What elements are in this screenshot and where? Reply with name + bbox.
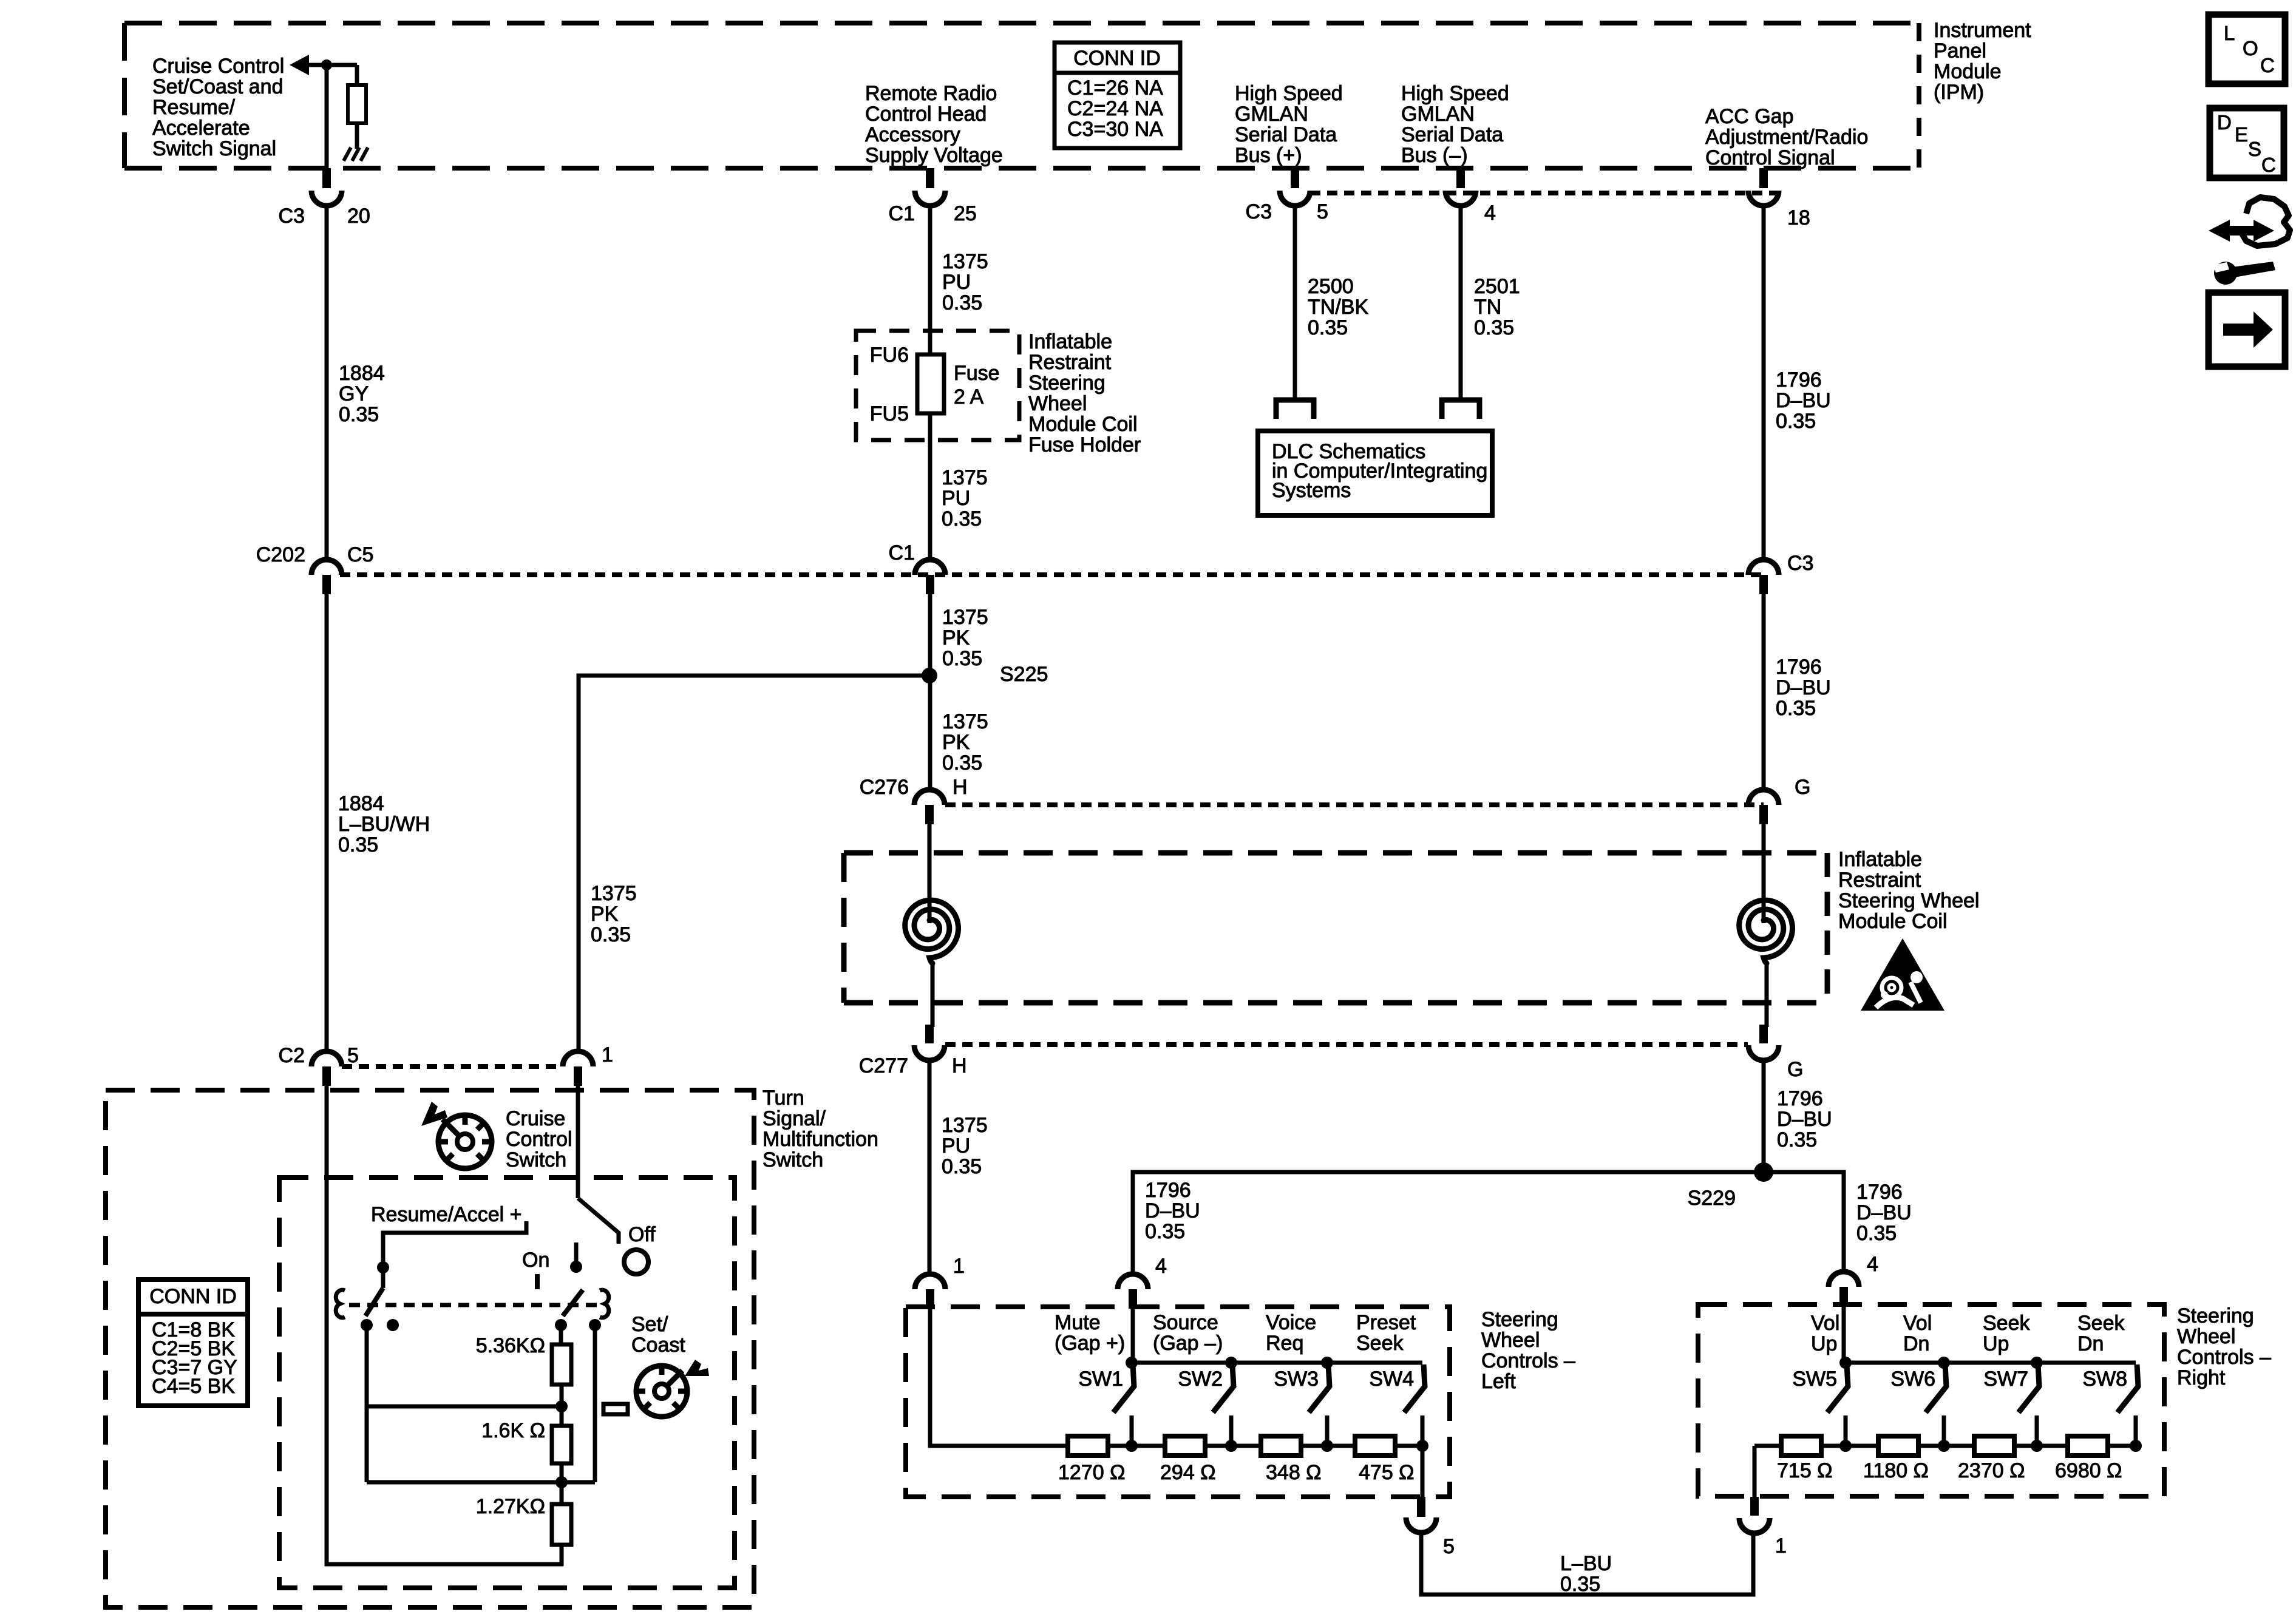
switch SW6 lower contact — [1942, 1415, 1946, 1446]
svg-text:Resume/Accel +: Resume/Accel + — [371, 1203, 522, 1226]
svg-text:1375: 1375 — [942, 466, 988, 489]
svg-text:GMLAN: GMLAN — [1401, 103, 1475, 126]
svg-text:CONN ID: CONN ID — [1073, 47, 1161, 70]
switch SW1 blade — [1113, 1364, 1134, 1412]
svg-text:0.35: 0.35 — [1856, 1222, 1897, 1245]
svg-text:1180 Ω: 1180 Ω — [1863, 1459, 1929, 1482]
svg-text:O: O — [2243, 37, 2258, 59]
svg-text:Restraint: Restraint — [1028, 351, 1112, 374]
link wire 2 — [367, 1480, 595, 1485]
svg-text:Inflatable: Inflatable — [1028, 330, 1112, 353]
svg-text:C276: C276 — [860, 776, 909, 799]
off blade — [578, 1198, 619, 1244]
svg-text:SW2: SW2 — [1178, 1368, 1223, 1391]
wire 1375 PU to SWC left — [928, 1059, 932, 1274]
svg-text:1884: 1884 — [339, 362, 385, 385]
connector C202 pin C1 — [915, 560, 945, 575]
off-page terminal (DLC +) — [1276, 400, 1314, 419]
svg-text:0.35: 0.35 — [1308, 316, 1348, 339]
svg-text:0.35: 0.35 — [1776, 697, 1816, 720]
wire pin1 to resistor row — [930, 1307, 1068, 1446]
svg-text:18: 18 — [1787, 206, 1810, 229]
svg-text:G: G — [1795, 776, 1810, 799]
junction dot SW6 rail — [1938, 1357, 1950, 1369]
connector row dotted line C277 — [945, 1042, 1748, 1047]
svg-text:SW4: SW4 — [1369, 1368, 1414, 1391]
svg-text:Vol: Vol — [1811, 1312, 1839, 1335]
svg-text:Steering: Steering — [1481, 1308, 1558, 1331]
svg-text:Controls –: Controls – — [2177, 1346, 2271, 1369]
svg-text:H: H — [952, 1054, 967, 1077]
svg-text:1796: 1796 — [1777, 1087, 1823, 1110]
svg-text:1.6K Ω: 1.6K Ω — [481, 1419, 545, 1442]
connector row dotted line C276 — [945, 802, 1764, 807]
svg-text:S229: S229 — [1688, 1187, 1736, 1210]
svg-text:C: C — [2260, 54, 2275, 76]
svg-text:GY: GY — [339, 382, 369, 405]
svg-text:Restraint: Restraint — [1838, 869, 1921, 892]
junction dot SW5 row — [1839, 1440, 1852, 1452]
resistor 475 Ω — [1355, 1436, 1395, 1456]
svg-text:1270 Ω: 1270 Ω — [1058, 1461, 1126, 1484]
svg-text:Instrument: Instrument — [1934, 19, 2031, 42]
svg-text:0.35: 0.35 — [1777, 1128, 1817, 1151]
connector pin 1 (SWC right) — [1750, 1497, 1759, 1516]
node dot — [555, 1476, 568, 1488]
Turn Signal/Multifunction Switch box — [106, 1090, 754, 1607]
wire — [560, 1463, 564, 1504]
junction dot SW3 rail — [1321, 1357, 1333, 1369]
connector C1 pin 25 (IPM) — [926, 168, 934, 188]
svg-text:L: L — [2224, 22, 2235, 44]
splice S225 — [922, 668, 937, 683]
svg-text:D–BU: D–BU — [1777, 1108, 1832, 1131]
wire C2-1 down to off switch — [576, 1085, 580, 1198]
svg-text:SW1: SW1 — [1078, 1368, 1123, 1391]
svg-text:FU5: FU5 — [870, 402, 909, 425]
svg-text:6980 Ω: 6980 Ω — [2055, 1459, 2122, 1482]
svg-text:L–BU/WH: L–BU/WH — [338, 813, 430, 836]
Cruise Control Switch box — [279, 1178, 735, 1588]
svg-text:5.36KΩ: 5.36KΩ — [476, 1334, 545, 1357]
svg-text:1375: 1375 — [942, 606, 988, 629]
svg-text:Source: Source — [1153, 1311, 1218, 1334]
svg-text:2500: 2500 — [1308, 275, 1354, 298]
svg-text:High Speed: High Speed — [1235, 82, 1343, 105]
switch SW8 lower contact — [2134, 1415, 2138, 1446]
svg-text:1.27KΩ: 1.27KΩ — [476, 1495, 545, 1518]
svg-text:C1=26 NA: C1=26 NA — [1067, 76, 1163, 100]
connector row dotted line C202 — [340, 572, 1764, 577]
switch SW8 blade — [2118, 1364, 2138, 1412]
svg-text:TN: TN — [1474, 296, 1501, 319]
switch SW5 lower contact — [1844, 1415, 1848, 1446]
switch SW1 lower contact — [1130, 1415, 1134, 1446]
svg-text:1: 1 — [602, 1043, 613, 1066]
svg-text:Accessory: Accessory — [865, 123, 960, 146]
svg-text:348 Ω: 348 Ω — [1266, 1461, 1322, 1484]
connector pin 4 (SWC right) — [1829, 1272, 1859, 1287]
connector C3 pin 20 (IPM) — [322, 168, 331, 188]
set/coast arrow — [685, 1360, 709, 1376]
switch rail (left module) — [1132, 1361, 1422, 1365]
svg-text:PU: PU — [942, 1134, 970, 1158]
svg-text:Bus (–): Bus (–) — [1401, 144, 1468, 167]
on contact — [574, 1242, 579, 1267]
svg-text:Switch: Switch — [506, 1148, 566, 1171]
connector pin 18 (IPM) — [1759, 168, 1768, 188]
svg-text:5: 5 — [347, 1044, 359, 1067]
switch SW2 blade — [1213, 1364, 1234, 1412]
wire — [355, 65, 359, 85]
svg-text:C5: C5 — [347, 543, 373, 566]
svg-text:Wheel: Wheel — [2177, 1325, 2235, 1348]
svg-text:GMLAN: GMLAN — [1235, 103, 1308, 126]
svg-text:Serial Data: Serial Data — [1235, 123, 1337, 146]
off-page terminal (DLC -) — [1442, 400, 1479, 419]
svg-text:20: 20 — [347, 205, 370, 228]
svg-text:4: 4 — [1155, 1255, 1167, 1278]
svg-text:SW7: SW7 — [1983, 1368, 2028, 1391]
off circle — [624, 1250, 648, 1274]
svg-text:5: 5 — [1317, 200, 1328, 223]
ground (chassis) — [344, 147, 351, 161]
svg-text:Right: Right — [2177, 1366, 2226, 1389]
svg-text:SW6: SW6 — [1890, 1368, 1935, 1391]
svg-text:Dn: Dn — [2077, 1332, 2104, 1355]
resume pivot dot — [377, 1261, 389, 1273]
DLC Schematics reference box — [1258, 431, 1492, 515]
svg-text:Module Coil: Module Coil — [1028, 413, 1138, 436]
wire 1884 L-BU/WH — [325, 593, 329, 1053]
wire L-BU — [1421, 1531, 1753, 1595]
switch SW2 lower contact — [1229, 1415, 1234, 1446]
svg-text:C4=5 BK: C4=5 BK — [152, 1375, 235, 1398]
svg-text:C2: C2 — [279, 1044, 305, 1067]
svg-text:C3: C3 — [1246, 200, 1272, 223]
svg-text:1375: 1375 — [942, 1114, 988, 1137]
junction dot SW1 rail — [1126, 1357, 1138, 1369]
svg-text:Vol: Vol — [1903, 1312, 1932, 1335]
junction dot SW2 row — [1225, 1440, 1237, 1452]
svg-text:25: 25 — [954, 202, 977, 225]
stalk arrow icon — [421, 1102, 447, 1126]
junction dot SW2 rail — [1225, 1357, 1237, 1369]
svg-text:Serial Data: Serial Data — [1401, 123, 1503, 146]
svg-text:Fuse Holder: Fuse Holder — [1028, 433, 1141, 456]
resistor 5.36K — [552, 1344, 571, 1385]
resistor 1270 Ω — [1068, 1436, 1108, 1456]
svg-text:H: H — [953, 776, 968, 799]
link end symbol left — [336, 1290, 345, 1318]
switch SW4 lower contact — [1421, 1415, 1425, 1446]
svg-text:TN/BK: TN/BK — [1308, 296, 1368, 319]
svg-text:C3: C3 — [279, 205, 305, 228]
switch SW6 blade — [1926, 1364, 1946, 1412]
svg-text:PU: PU — [942, 271, 971, 294]
wire — [307, 63, 357, 67]
svg-text:Systems: Systems — [1272, 479, 1351, 502]
svg-text:Inflatable: Inflatable — [1838, 848, 1922, 871]
connector C276 pin G — [1748, 790, 1779, 805]
resistor row wires (left) — [930, 1444, 1422, 1448]
node dot — [555, 1400, 568, 1412]
svg-text:Wheel: Wheel — [1028, 392, 1087, 415]
wire out of left coil — [931, 963, 935, 1027]
svg-text:PK: PK — [942, 626, 970, 649]
svg-text:D–BU: D–BU — [1776, 676, 1831, 699]
svg-text:Left: Left — [1481, 1370, 1516, 1393]
svg-text:C: C — [2261, 154, 2276, 176]
switch SW7 lower contact — [2035, 1415, 2039, 1446]
svg-text:1375: 1375 — [942, 710, 988, 733]
svg-text:Panel: Panel — [1934, 39, 1986, 63]
wire 1796 D-BU to S229 — [1762, 1059, 1766, 1172]
connector row dotted line C2 (turn signal switch) — [342, 1064, 563, 1069]
DESC icon box — [2210, 108, 2284, 178]
wire 1796 D-BU (below C202) — [1762, 593, 1766, 791]
svg-text:Bus (+): Bus (+) — [1235, 144, 1302, 167]
fuse FU6/FU5 2A — [917, 354, 944, 413]
resume/accel wire — [383, 1221, 526, 1288]
svg-text:Off: Off — [628, 1223, 656, 1246]
svg-text:2 A: 2 A — [954, 385, 983, 408]
resistor 715 Ω — [1781, 1436, 1821, 1456]
CONN ID table (switch) — [138, 1280, 248, 1406]
junction dot — [321, 59, 332, 70]
junction dot SW3 row — [1321, 1440, 1333, 1452]
wrench icon — [2214, 262, 2237, 285]
Steering Wheel Controls - Left box — [906, 1307, 1450, 1497]
svg-text:Module: Module — [1934, 60, 2002, 83]
svg-text:0.35: 0.35 — [338, 833, 378, 856]
svg-text:Supply Voltage: Supply Voltage — [865, 144, 1003, 167]
mechanical link dashed line — [349, 1303, 598, 1307]
wire 2500 TN/BK — [1293, 205, 1297, 399]
svg-text:C277: C277 — [859, 1054, 908, 1077]
junction dot SW6 row — [1938, 1440, 1950, 1452]
svg-text:0.35: 0.35 — [942, 291, 982, 314]
wire 1796 D-BU (from pin 18) — [1762, 205, 1766, 561]
resistor row wires (right) — [1754, 1444, 2136, 1448]
connector C2 pin 1 (turn signal switch) — [563, 1051, 593, 1066]
wire C2-5 down through switch — [327, 1085, 563, 1564]
resistor 294 Ω — [1165, 1436, 1205, 1456]
svg-text:1375: 1375 — [591, 882, 637, 905]
wire row to pin 1 (right) — [1753, 1446, 1757, 1497]
svg-text:Turn: Turn — [763, 1086, 804, 1110]
junction dot SW7 rail — [2031, 1357, 2043, 1369]
svg-text:C3: C3 — [1787, 552, 1813, 575]
svg-text:Voice: Voice — [1266, 1311, 1316, 1334]
connector row dotted line (GMLAN) — [1310, 191, 1778, 195]
resistor 2370 Ω — [1974, 1436, 2014, 1456]
svg-text:2501: 2501 — [1474, 275, 1520, 298]
cruise control switch icon (gauge) — [438, 1115, 492, 1168]
svg-text:Mute: Mute — [1055, 1311, 1101, 1334]
svg-text:C1: C1 — [889, 541, 915, 564]
svg-text:5: 5 — [1443, 1535, 1455, 1558]
svg-text:Up: Up — [1811, 1332, 1837, 1355]
svg-text:Up: Up — [1983, 1332, 2009, 1355]
wire pin4 to rail — [1131, 1307, 1135, 1363]
wire — [560, 1545, 564, 1566]
wire S229 to left (SWC-L pin 4) — [1133, 1172, 1764, 1274]
svg-text:D: D — [2217, 111, 2232, 134]
svg-text:Set/Coast and: Set/Coast and — [152, 75, 283, 98]
svg-text:0.35: 0.35 — [339, 403, 379, 426]
wire into left coil — [928, 823, 932, 923]
wire 1375 PK — [928, 593, 932, 791]
connector C277 pin H — [925, 1025, 934, 1043]
connector pin 5 (SWC left) — [1417, 1497, 1425, 1517]
svg-text:Fuse: Fuse — [954, 362, 1000, 385]
switch rail (right module) — [1846, 1361, 2136, 1365]
svg-text:Control Head: Control Head — [865, 103, 987, 126]
connector C202 pin C5 — [311, 560, 342, 575]
Steering Wheel Controls - Right box — [1698, 1304, 2164, 1496]
svg-text:D–BU: D–BU — [1856, 1201, 1912, 1224]
connector pin 1 (SWC left) — [915, 1274, 945, 1289]
svg-text:0.35: 0.35 — [942, 751, 982, 775]
SIR warning triangle — [1861, 938, 1944, 1011]
resume blade — [365, 1288, 383, 1316]
svg-text:715 Ω: 715 Ω — [1777, 1459, 1833, 1482]
switch SW5 blade — [1827, 1364, 1848, 1412]
svg-text:ACC Gap: ACC Gap — [1705, 105, 1794, 128]
svg-text:1796: 1796 — [1145, 1179, 1191, 1202]
svg-text:SW5: SW5 — [1792, 1368, 1837, 1391]
svg-text:Preset: Preset — [1356, 1311, 1416, 1334]
svg-text:E: E — [2235, 123, 2248, 146]
svg-text:Steering: Steering — [1028, 371, 1106, 395]
svg-text:Steering Wheel: Steering Wheel — [1838, 889, 1979, 912]
svg-text:Controls –: Controls – — [1481, 1349, 1575, 1372]
link end symbol right — [600, 1290, 609, 1318]
svg-text:SW8: SW8 — [2082, 1368, 2127, 1391]
svg-text:L–BU: L–BU — [1560, 1552, 1612, 1575]
wire out of right coil — [1765, 963, 1769, 1027]
svg-text:Resume/: Resume/ — [152, 96, 236, 119]
svg-text:Multifunction: Multifunction — [763, 1128, 878, 1151]
svg-text:Control Signal: Control Signal — [1705, 146, 1835, 169]
wire 2501 TN — [1459, 205, 1463, 399]
svg-text:475 Ω: 475 Ω — [1359, 1461, 1415, 1484]
svg-text:High Speed: High Speed — [1401, 82, 1509, 105]
svg-text:(Gap –): (Gap –) — [1153, 1332, 1223, 1355]
resistor 1.6K — [552, 1426, 571, 1463]
svg-text:(Gap +): (Gap +) — [1055, 1332, 1125, 1355]
hand with double arrow icon — [2209, 220, 2274, 242]
svg-text:0.35: 0.35 — [942, 647, 982, 670]
junction dot SW4 row — [1416, 1440, 1428, 1452]
junction dot SW5 rail — [1839, 1357, 1852, 1369]
left contact wire — [365, 1325, 369, 1482]
svg-text:1796: 1796 — [1776, 656, 1822, 679]
svg-text:C3=30 NA: C3=30 NA — [1067, 118, 1163, 141]
svg-text:D–BU: D–BU — [1145, 1199, 1200, 1222]
svg-text:CONN ID: CONN ID — [149, 1285, 237, 1308]
svg-text:Accelerate: Accelerate — [152, 117, 250, 140]
junction dot SW1 row — [1126, 1440, 1138, 1452]
coil (right, SIR steering wheel module coil) — [1739, 900, 1793, 963]
svg-text:294 Ω: 294 Ω — [1160, 1461, 1216, 1484]
svg-text:0.35: 0.35 — [591, 923, 631, 946]
svg-text:0.35: 0.35 — [1560, 1573, 1600, 1596]
svg-text:Seek: Seek — [2077, 1312, 2125, 1335]
wire into right coil — [1762, 823, 1766, 923]
fuse holder dashed box FU6/FU5 — [856, 331, 1019, 440]
resistor (IPM internal pull-up) — [348, 85, 366, 123]
svg-text:(IPM): (IPM) — [1934, 81, 1984, 104]
connector C276 pin H — [914, 790, 945, 805]
svg-text:Signal/: Signal/ — [763, 1107, 826, 1130]
on pivot dot — [570, 1261, 582, 1273]
svg-text:C2=24 NA: C2=24 NA — [1067, 97, 1163, 120]
svg-text:S225: S225 — [1000, 663, 1048, 686]
svg-text:Cruise Control: Cruise Control — [152, 55, 284, 78]
junction dot SW7 row — [2031, 1440, 2043, 1452]
svg-text:0.35: 0.35 — [1474, 316, 1514, 339]
svg-text:Seek: Seek — [1983, 1312, 2030, 1335]
connector pin 4 (IPM) — [1456, 168, 1465, 188]
svg-text:0.35: 0.35 — [942, 507, 982, 531]
contact dots — [361, 1319, 373, 1331]
svg-text:Req: Req — [1266, 1332, 1303, 1355]
wire — [355, 123, 359, 149]
svg-text:Remote Radio: Remote Radio — [865, 82, 997, 105]
svg-text:0.35: 0.35 — [1776, 410, 1816, 433]
next-page arrow icon box — [2209, 293, 2285, 367]
svg-text:Control: Control — [506, 1128, 572, 1151]
svg-text:2370 Ω: 2370 Ω — [1958, 1459, 2025, 1482]
svg-text:G: G — [1787, 1058, 1803, 1081]
svg-text:Wheel: Wheel — [1481, 1329, 1540, 1352]
wire SW4 row to pin 5 — [1421, 1446, 1425, 1497]
svg-text:Set/: Set/ — [631, 1313, 668, 1336]
splice S229 — [1754, 1162, 1773, 1182]
ladder top wire — [559, 1325, 563, 1344]
svg-text:Cruise: Cruise — [506, 1107, 565, 1130]
svg-text:4: 4 — [1867, 1253, 1878, 1276]
wire 1375 PU — [928, 205, 932, 354]
svg-text:Adjustment/Radio: Adjustment/Radio — [1705, 126, 1868, 149]
on tick — [535, 1274, 540, 1289]
wire — [560, 1385, 564, 1426]
connector C202 pin C3 — [1748, 560, 1779, 575]
svg-text:1375: 1375 — [942, 250, 988, 273]
set/coast actuator rect — [603, 1404, 628, 1414]
right contact wire — [593, 1325, 597, 1482]
switch SW7 blade — [2019, 1364, 2039, 1412]
svg-text:0.35: 0.35 — [942, 1155, 982, 1178]
connector C2 pin 5 (turn signal switch) — [311, 1051, 342, 1066]
svg-text:Module Coil: Module Coil — [1838, 910, 1948, 933]
svg-text:SW3: SW3 — [1274, 1368, 1319, 1391]
svg-text:1: 1 — [1775, 1534, 1787, 1558]
svg-text:C1: C1 — [889, 202, 915, 225]
svg-text:1796: 1796 — [1776, 368, 1822, 392]
svg-text:C202: C202 — [256, 543, 305, 566]
svg-text:Steering: Steering — [2177, 1304, 2254, 1327]
signal arrow into IPM — [290, 55, 309, 75]
connector C277 pin G — [1759, 1025, 1768, 1043]
wire pin4 to rail (right) — [1842, 1305, 1846, 1363]
resistor 1.27K — [552, 1504, 571, 1545]
CONN ID table (top) — [1055, 42, 1180, 148]
coil (left, SIR steering wheel module coil) — [905, 900, 959, 963]
Instrument Panel Module (IPM) box — [124, 21, 1919, 25]
